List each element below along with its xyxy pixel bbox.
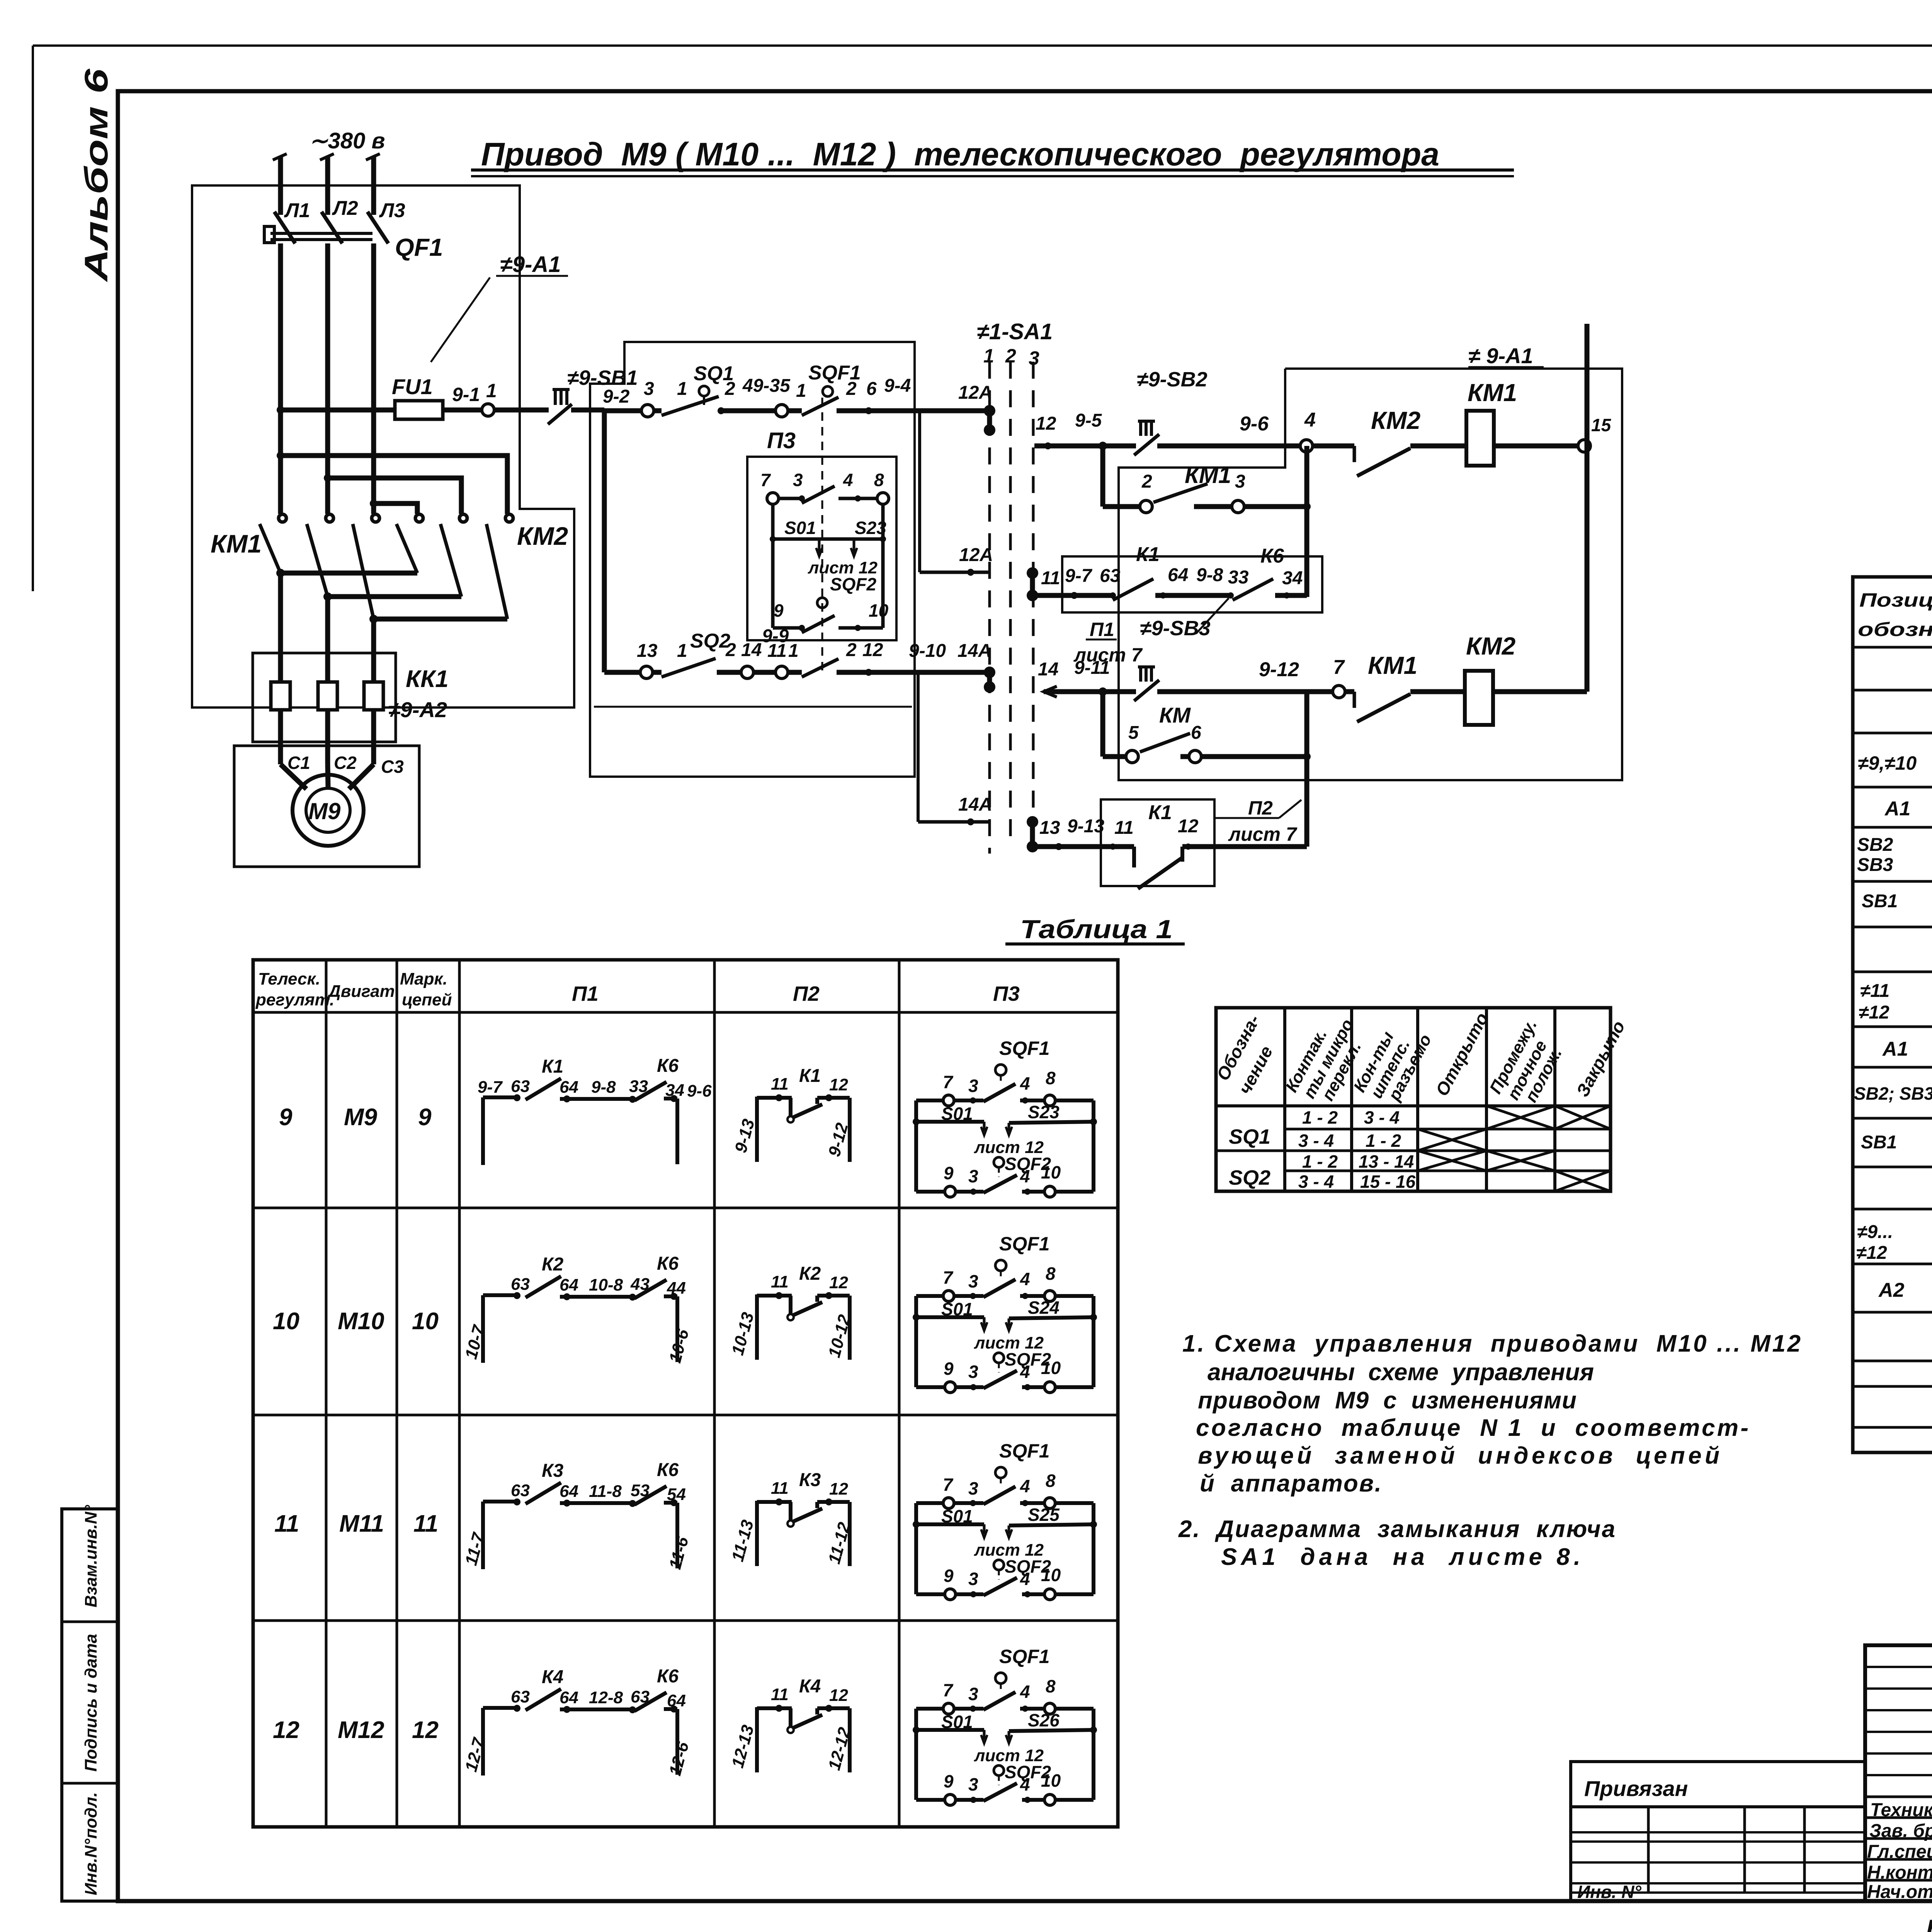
- svg-text:12: 12: [829, 1273, 848, 1292]
- svg-text:64: 64: [560, 1078, 578, 1097]
- svg-text:≠9...: ≠9...: [1857, 1222, 1893, 1242]
- svg-text:SQ2: SQ2: [690, 630, 730, 652]
- svg-text:54: 54: [667, 1485, 686, 1504]
- svg-text:П1: П1: [572, 982, 599, 1005]
- svg-text:≠ 9-А1: ≠ 9-А1: [1468, 344, 1533, 368]
- svg-text:15: 15: [1591, 415, 1612, 435]
- svg-text:КМ1: КМ1: [1185, 462, 1231, 488]
- svg-text:П3: П3: [993, 982, 1020, 1005]
- svg-text:10-8: 10-8: [589, 1276, 623, 1294]
- svg-text:Л1: Л1: [284, 199, 310, 222]
- svg-text:Привязан: Привязан: [1584, 1776, 1688, 1801]
- svg-text:1: 1: [983, 345, 994, 367]
- svg-text:14: 14: [741, 640, 762, 660]
- svg-text:регулят.: регулят.: [255, 990, 334, 1009]
- svg-text:12: 12: [1036, 413, 1056, 434]
- svg-text:11: 11: [274, 1510, 299, 1537]
- svg-text:3: 3: [1235, 471, 1245, 492]
- svg-text:12: 12: [829, 1480, 848, 1498]
- svg-text:Подпись и дата: Подпись и дата: [82, 1634, 100, 1772]
- svg-text:≠9-SB3: ≠9-SB3: [1140, 617, 1211, 640]
- svg-text:КК1: КК1: [406, 666, 449, 692]
- svg-text:9: 9: [774, 600, 784, 621]
- svg-text:10: 10: [869, 600, 889, 621]
- svg-text:6: 6: [866, 379, 877, 399]
- svg-text:11: 11: [771, 1479, 789, 1498]
- svg-text:∼380 в: ∼380 в: [309, 128, 385, 153]
- svg-text:вующей заменой индексов цеп: вующей заменой индексов цепей: [1198, 1442, 1719, 1469]
- svg-text:согласно таблице N 1 и соо: согласно таблице N 1 и соответст-: [1196, 1415, 1748, 1441]
- svg-text:Зав. бр.: Зав. бр.: [1869, 1821, 1932, 1841]
- svg-text:К6: К6: [657, 1056, 679, 1076]
- svg-text:63: 63: [511, 1275, 530, 1294]
- svg-text:1: 1: [486, 380, 497, 401]
- svg-text:12: 12: [412, 1717, 439, 1743]
- svg-text:63: 63: [511, 1077, 530, 1096]
- svg-text:33: 33: [629, 1077, 648, 1096]
- svg-text:А1: А1: [1884, 798, 1910, 820]
- svg-text:13 - 14: 13 - 14: [1359, 1151, 1414, 1172]
- svg-text:П1: П1: [1090, 619, 1114, 640]
- svg-text:1: 1: [677, 641, 687, 661]
- svg-text:11: 11: [771, 1075, 789, 1094]
- svg-text:П2: П2: [1248, 797, 1273, 819]
- svg-text:53: 53: [631, 1481, 650, 1500]
- svg-text:SQ2: SQ2: [1229, 1166, 1270, 1189]
- svg-text:FU1: FU1: [392, 374, 433, 399]
- svg-text:12А: 12А: [959, 545, 993, 565]
- svg-text:44: 44: [667, 1279, 686, 1298]
- svg-text:64: 64: [560, 1688, 578, 1707]
- svg-text:12-8: 12-8: [589, 1688, 623, 1707]
- svg-text:SQF2: SQF2: [830, 574, 877, 594]
- svg-text:12: 12: [829, 1686, 848, 1705]
- svg-text:К1: К1: [542, 1056, 563, 1077]
- svg-text:К1: К1: [1136, 543, 1160, 566]
- svg-text:9-6: 9-6: [687, 1082, 712, 1100]
- svg-text:≠12: ≠12: [1859, 1002, 1889, 1023]
- svg-text:49-35: 49-35: [742, 376, 791, 396]
- svg-text:1: 1: [796, 381, 806, 401]
- svg-text:Взам.инв.N°: Взам.инв.N°: [82, 1505, 100, 1608]
- svg-text:Техник: Техник: [1870, 1800, 1932, 1820]
- svg-text:1 - 2: 1 - 2: [1302, 1151, 1338, 1172]
- svg-text:11: 11: [1114, 818, 1134, 838]
- svg-text:14: 14: [1038, 659, 1058, 680]
- svg-text:SB3: SB3: [1857, 855, 1893, 875]
- svg-text:К1: К1: [799, 1066, 821, 1086]
- svg-text:КМ1: КМ1: [1368, 651, 1417, 679]
- svg-text:КМ: КМ: [1159, 703, 1191, 727]
- svg-text:13: 13: [1039, 818, 1060, 838]
- svg-text:SB1: SB1: [1861, 1132, 1897, 1153]
- svg-text:11: 11: [413, 1510, 438, 1537]
- svg-text:≠9-А1: ≠9-А1: [500, 252, 561, 277]
- svg-text:Альбом 6: Альбом 6: [78, 68, 114, 282]
- svg-text:S24: S24: [1028, 1298, 1060, 1318]
- svg-text:К1: К1: [1148, 801, 1172, 824]
- svg-text:1 - 2: 1 - 2: [1302, 1107, 1338, 1128]
- svg-text:КМ2: КМ2: [517, 522, 568, 550]
- svg-text:SB2; SB3: SB2; SB3: [1854, 1083, 1932, 1104]
- svg-text:1 - 2: 1 - 2: [1366, 1131, 1401, 1151]
- svg-text:S26: S26: [1028, 1710, 1060, 1730]
- svg-text:Двигат: Двигат: [327, 982, 395, 1001]
- svg-text:63: 63: [1100, 566, 1121, 586]
- svg-text:КМ2: КМ2: [1466, 632, 1515, 660]
- svg-text:≠12: ≠12: [1856, 1243, 1887, 1263]
- svg-text:14А: 14А: [958, 794, 992, 815]
- svg-text:1: 1: [677, 379, 687, 399]
- svg-text:SB2: SB2: [1857, 835, 1893, 855]
- svg-text:2: 2: [724, 379, 735, 399]
- svg-text:12: 12: [862, 640, 883, 660]
- svg-text:4: 4: [843, 470, 853, 490]
- svg-text:≠9-SB2: ≠9-SB2: [1137, 368, 1207, 391]
- svg-text:Телеск.: Телеск.: [258, 969, 320, 988]
- svg-text:2: 2: [1141, 471, 1152, 492]
- svg-text:Н.контр.: Н.контр.: [1867, 1862, 1932, 1883]
- svg-text:≠9-SB1: ≠9-SB1: [567, 366, 638, 389]
- svg-text:К2: К2: [799, 1264, 821, 1284]
- svg-text:9-2: 9-2: [603, 386, 630, 407]
- svg-text:S23: S23: [855, 518, 886, 538]
- svg-text:9: 9: [279, 1104, 293, 1131]
- svg-text:15 - 16: 15 - 16: [1360, 1172, 1416, 1192]
- svg-text:приводом М9 с изменениями: приводом М9 с изменениями: [1198, 1387, 1577, 1414]
- svg-text:3: 3: [793, 470, 803, 490]
- svg-text:64: 64: [560, 1482, 578, 1501]
- svg-text:63: 63: [631, 1687, 650, 1706]
- svg-text:11: 11: [771, 1272, 789, 1291]
- svg-text:Копировал: Копировал: [1926, 1915, 1932, 1932]
- svg-text:Таблица 1: Таблица 1: [1020, 915, 1173, 944]
- svg-text:64: 64: [667, 1691, 686, 1710]
- svg-text:3 - 4: 3 - 4: [1298, 1172, 1334, 1192]
- svg-text:34: 34: [1282, 568, 1303, 588]
- svg-text:63: 63: [511, 1687, 530, 1706]
- svg-text:S01: S01: [784, 518, 816, 538]
- svg-text:9-1: 9-1: [452, 384, 480, 405]
- svg-text:S25: S25: [1028, 1505, 1060, 1525]
- svg-text:3 - 4: 3 - 4: [1298, 1131, 1334, 1151]
- svg-text:М12: М12: [338, 1717, 384, 1743]
- svg-text:QF1: QF1: [395, 233, 443, 261]
- svg-text:Позиц.: Позиц.: [1859, 589, 1932, 611]
- svg-text:Инв. N°: Инв. N°: [1577, 1882, 1641, 1902]
- svg-text:≠9-А2: ≠9-А2: [388, 697, 447, 722]
- svg-text:К4: К4: [542, 1667, 563, 1687]
- svg-text:SB1: SB1: [1862, 891, 1898, 912]
- svg-text:6: 6: [1191, 723, 1201, 743]
- svg-text:9: 9: [418, 1104, 432, 1131]
- svg-text:11: 11: [767, 641, 787, 661]
- svg-text:34: 34: [665, 1081, 684, 1100]
- svg-text:9-6: 9-6: [1240, 413, 1269, 435]
- svg-text:9-13: 9-13: [1067, 816, 1104, 837]
- svg-text:1: 1: [788, 641, 799, 661]
- svg-text:П2: П2: [793, 982, 820, 1005]
- svg-text:К3: К3: [542, 1461, 564, 1481]
- svg-text:64: 64: [560, 1276, 578, 1294]
- svg-text:12: 12: [829, 1075, 848, 1094]
- svg-text:КМ1: КМ1: [211, 529, 262, 558]
- svg-text:С2: С2: [334, 753, 357, 773]
- svg-text:9-12: 9-12: [1259, 658, 1299, 681]
- svg-text:9-8: 9-8: [591, 1078, 616, 1097]
- svg-text:цепей: цепей: [402, 990, 452, 1009]
- svg-text:КМ1: КМ1: [1468, 379, 1517, 406]
- svg-text:К6: К6: [657, 1666, 679, 1687]
- svg-text:9-4: 9-4: [884, 376, 911, 396]
- svg-text:7: 7: [760, 470, 771, 490]
- svg-text:Л3: Л3: [379, 199, 405, 222]
- svg-text:≠11: ≠11: [1860, 981, 1889, 1001]
- svg-text:КМ2: КМ2: [1371, 406, 1420, 434]
- svg-text:12А: 12А: [958, 383, 992, 403]
- svg-text:9-8: 9-8: [1196, 565, 1223, 585]
- svg-text:К6: К6: [657, 1460, 679, 1480]
- svg-text:Марк.: Марк.: [400, 969, 447, 988]
- svg-text:К6: К6: [657, 1253, 679, 1274]
- svg-text:11: 11: [771, 1685, 789, 1704]
- svg-text:3: 3: [1029, 347, 1039, 369]
- svg-text:10: 10: [412, 1308, 439, 1335]
- svg-text:≠9,≠10: ≠9,≠10: [1858, 752, 1917, 774]
- svg-text:2: 2: [846, 640, 857, 660]
- svg-text:11: 11: [1041, 568, 1060, 588]
- svg-text:8: 8: [874, 470, 884, 490]
- svg-text:14А: 14А: [957, 641, 992, 661]
- svg-text:А1: А1: [1882, 1038, 1908, 1060]
- svg-text:М10: М10: [338, 1308, 384, 1335]
- svg-text:2: 2: [1005, 345, 1016, 367]
- svg-text:13: 13: [637, 641, 658, 661]
- svg-text:Нач.отд.: Нач.отд.: [1867, 1882, 1932, 1902]
- svg-text:аналогичны схеме управления: аналогичны схеме управления: [1207, 1359, 1594, 1386]
- svg-text:63: 63: [511, 1481, 530, 1500]
- svg-text:S23: S23: [1028, 1102, 1060, 1122]
- svg-text:лист 7: лист 7: [1228, 823, 1298, 845]
- svg-text:С3: С3: [381, 757, 404, 777]
- svg-text:А2: А2: [1878, 1279, 1905, 1301]
- svg-text:43: 43: [630, 1275, 650, 1294]
- svg-text:К3: К3: [799, 1470, 821, 1490]
- svg-text:4: 4: [1304, 409, 1316, 431]
- svg-text:М11: М11: [339, 1510, 384, 1537]
- svg-text:3: 3: [644, 379, 654, 399]
- svg-text:обозн.: обозн.: [1858, 619, 1932, 640]
- svg-text:33: 33: [1228, 567, 1249, 588]
- svg-text:10: 10: [273, 1308, 299, 1335]
- svg-text:3 - 4: 3 - 4: [1364, 1107, 1400, 1128]
- svg-text:П3: П3: [767, 428, 796, 453]
- svg-text:2: 2: [725, 640, 736, 660]
- svg-text:5: 5: [1128, 723, 1139, 743]
- svg-text:Гл.спец.: Гл.спец.: [1867, 1842, 1932, 1862]
- svg-text:Инв.N°подл.: Инв.N°подл.: [82, 1792, 100, 1895]
- svg-text:К4: К4: [799, 1676, 821, 1697]
- svg-text:9-7: 9-7: [478, 1078, 503, 1097]
- svg-text:2: 2: [846, 379, 857, 399]
- svg-text:С1: С1: [287, 753, 310, 773]
- svg-text:Л2: Л2: [332, 197, 358, 219]
- svg-text:Привод М9 ( М10 ... М12 ) т: Привод М9 ( М10 ... М12 ) телескопическо…: [481, 136, 1439, 172]
- svg-text:9-10: 9-10: [909, 641, 946, 661]
- svg-text:М9: М9: [308, 798, 341, 824]
- svg-text:7: 7: [1333, 656, 1345, 679]
- svg-text:К6: К6: [1260, 545, 1284, 567]
- svg-text:9-11: 9-11: [1074, 658, 1110, 678]
- svg-text:12: 12: [1178, 816, 1199, 837]
- svg-text:≠1-SA1: ≠1-SA1: [977, 319, 1053, 344]
- svg-text:12: 12: [273, 1717, 299, 1743]
- svg-text:9-5: 9-5: [1075, 410, 1102, 431]
- svg-text:9-7: 9-7: [1065, 566, 1093, 586]
- svg-text:11-8: 11-8: [589, 1482, 622, 1501]
- svg-text:М9: М9: [344, 1104, 378, 1131]
- svg-text:64: 64: [1168, 565, 1188, 585]
- svg-text:SQ1: SQ1: [1229, 1125, 1270, 1148]
- svg-text:К2: К2: [542, 1254, 564, 1275]
